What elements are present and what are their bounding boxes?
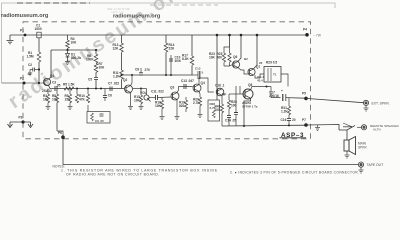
jack arrow right (28, 122, 33, 128)
diode D1 (67, 50, 69, 53)
svg-text:C16: C16 (281, 118, 287, 122)
svg-text:2. ● INDICATES 3 PIN OF 5-PRON: 2. ● INDICATES 3 PIN OF 5-PRONGED CIRCUI… (230, 171, 359, 175)
Q4 emitter resistor R20 (199, 91, 200, 97)
Q7 collector (254, 35, 258, 69)
svg-text:10K: 10K (99, 66, 106, 70)
junction dots wire y88.5 (76, 88, 78, 90)
svg-text:P3: P3 (19, 116, 23, 120)
svg-text:22K: 22K (169, 47, 176, 51)
capacitor C16b (288, 115, 290, 118)
capacitor C12 (192, 74, 198, 76)
ground tape out (359, 167, 364, 173)
Q1 emitter wire y88.5 (49, 86, 125, 89)
svg-text:C11 .022: C11 .022 (151, 90, 164, 94)
svg-text:270: 270 (145, 68, 151, 72)
svg-text:2SA12: 2SA12 (42, 89, 52, 93)
capacitor C2 (38, 68, 40, 70)
svg-text:+: + (281, 89, 283, 93)
capacitor C7 (109, 87, 111, 92)
svg-text:43.4: 43.4 (257, 79, 263, 83)
svg-text:TAPE OUT: TAPE OUT (367, 163, 384, 167)
svg-text:C8: C8 (135, 68, 139, 72)
wire to main speaker (346, 130, 348, 140)
Q8 emitter wire to C10 (251, 87, 271, 90)
svg-text:radiomuseum.org: radiomuseum.org (113, 14, 161, 20)
svg-text:Q3: Q3 (170, 86, 174, 90)
connector EXT SPKR (363, 100, 368, 105)
Q2 collector (131, 75, 133, 86)
node P3 / jacks (21, 120, 24, 123)
svg-text:OF RADIO AND ARE NOT ON CIRCUI: OF RADIO AND ARE NOT ON CIRCUIT BOARD. (66, 173, 160, 177)
svg-text:.02: .02 (27, 72, 32, 76)
svg-text:560: 560 (217, 56, 223, 60)
ground speaker (345, 151, 350, 158)
wire column x39 (38, 38, 40, 52)
resistor R31 column x285 (285, 97, 287, 99)
svg-text:C6: C6 (108, 94, 112, 98)
chassis ground outside border (315, 125, 320, 131)
transistor Q4 (193, 84, 201, 92)
resistor R6 column x96 (95, 49, 97, 51)
Q8 base wire (240, 93, 245, 95)
connector REMOTE SPEAKER (361, 125, 366, 130)
capacitor C13 (183, 84, 185, 89)
svg-text:SPKR: SPKR (358, 146, 367, 150)
top rail (10, 34, 307, 36)
node P2 / input wire (2, 82, 45, 84)
svg-text:10K: 10K (134, 99, 141, 103)
svg-text:C2: C2 (28, 63, 32, 67)
wire remote speaker (306, 125, 339, 131)
svg-text:1.5M: 1.5M (27, 55, 34, 59)
feedback network box (208, 100, 220, 121)
wire y50 (51, 49, 96, 51)
ground ext spkr (364, 106, 369, 112)
svg-text:8.2K: 8.2K (182, 57, 189, 61)
capacitor C5 (94, 77, 98, 79)
svg-text:R5 1.5K: R5 1.5K (63, 83, 75, 87)
resistor R12 (87, 89, 89, 95)
transistor Q5 (216, 88, 224, 96)
svg-text:NF: NF (222, 93, 226, 97)
transistor Q2 (125, 85, 133, 93)
svg-text:820: 820 (179, 104, 185, 108)
capacitor C10 (170, 74, 172, 76)
resistor R4 (67, 35, 69, 40)
svg-text:10K: 10K (209, 56, 216, 60)
Q5 emitter resistor R21 (221, 95, 223, 104)
bottom rail output (222, 124, 306, 127)
svg-text:Q2: Q2 (123, 78, 127, 82)
node P1 (24, 34, 27, 37)
jack contacts (339, 129, 347, 131)
svg-text:ALTN: ALTN (373, 128, 381, 132)
svg-text:Q6: Q6 (233, 55, 237, 59)
wire Q2 to pot (133, 88, 141, 90)
wire to ext spkr (306, 98, 364, 102)
transistor Q8 (output) (243, 89, 253, 99)
transistor Q6 (232, 61, 239, 68)
ground C2 (28, 70, 32, 76)
capacitor C6 (104, 89, 106, 96)
capacitor C14 (227, 115, 231, 117)
svg-text:Q4: Q4 (201, 81, 205, 85)
svg-text:200/16: 200/16 (269, 94, 279, 98)
svg-text:C13 .047: C13 .047 (181, 79, 194, 83)
svg-text:12K: 12K (113, 47, 120, 51)
wire P6 down (62, 137, 64, 164)
svg-text:47K: 47K (79, 98, 86, 102)
resistor R3 (47, 89, 49, 95)
svg-text:C16 .1: C16 .1 (215, 84, 225, 88)
frame dark dashes (17, 2, 90, 4)
svg-text:R29 0.5: R29 0.5 (266, 61, 277, 65)
Q3 emitter ground (176, 99, 178, 116)
node P4 (305, 33, 309, 37)
svg-text:C12: C12 (195, 67, 201, 71)
resistor R10 (76, 89, 78, 95)
svg-text:30/6: 30/6 (175, 59, 181, 63)
svg-text:500-2b: 500-2b (71, 56, 81, 60)
speaker MAIN SPKR (344, 140, 349, 151)
svg-text:26: 26 (259, 61, 263, 65)
resistors R23 R25 (229, 35, 231, 47)
capacitor C15 electrolytic (235, 86, 237, 112)
node P7 (304, 123, 308, 127)
svg-text:radiomuseum.org: radiomuseum.org (1, 13, 49, 19)
svg-text:~ 7W: ~ 7W (313, 34, 322, 38)
transistor Q7 (248, 68, 255, 75)
Q6 emitter / coupling (238, 68, 248, 74)
svg-text:P5: P5 (302, 92, 306, 96)
resistor R19 (185, 97, 187, 100)
volume pot P (144, 95, 149, 100)
svg-text:P7: P7 (302, 118, 306, 122)
ground (input) (7, 35, 14, 44)
capacitor C11 (149, 97, 155, 99)
resistor R26 (229, 93, 240, 95)
resistor R9 (69, 89, 71, 95)
capacitor C8 (139, 72, 143, 74)
svg-text:P1: P1 (20, 29, 24, 33)
resistor R15 (140, 89, 142, 96)
svg-text:GEPR. 9.62: GEPR. 9.62 (111, 11, 124, 14)
svg-text:C7 .022: C7 .022 (108, 82, 119, 86)
svg-text:P2: P2 (20, 77, 24, 81)
svg-text:VOL: VOL (140, 91, 147, 95)
Q4 collector wire (199, 78, 214, 92)
driver transformer T1 box (264, 67, 281, 83)
svg-text:EXT. SPKR.: EXT. SPKR. (372, 101, 390, 105)
svg-text:P6: P6 (58, 131, 62, 135)
Q8 collector to rail (244, 98, 251, 126)
svg-text:C14 .05: C14 .05 (225, 119, 236, 123)
jack arrow left (8, 122, 13, 128)
transistor Q1 (43, 78, 50, 85)
svg-text:100K: 100K (86, 58, 94, 62)
resistor R18 (161, 97, 163, 100)
svg-text:10K: 10K (71, 41, 78, 45)
Q3 collector wire (177, 87, 193, 93)
svg-text:T1: T1 (273, 73, 277, 77)
tape out wire (63, 164, 359, 166)
Q2 emitter / ground (130, 92, 132, 106)
node P6 (61, 135, 65, 139)
svg-text:B2: B2 (244, 57, 248, 61)
svg-text:1000: 1000 (35, 27, 42, 31)
svg-text:100: 100 (215, 108, 221, 112)
svg-text:C5: C5 (88, 78, 92, 82)
transistor Q3 (171, 92, 179, 100)
wire y75 (122, 74, 193, 76)
resistor R14 (165, 35, 167, 43)
svg-text:2.7K: 2.7K (193, 101, 200, 105)
svg-text:P4: P4 (303, 28, 307, 32)
feedback box R10/C9 (87, 112, 110, 124)
node P5 (304, 97, 308, 101)
connector TAPE OUT (358, 162, 363, 167)
svg-text:10K: 10K (155, 104, 162, 108)
dashed board outline (23, 22, 311, 139)
Q6 collector wire (238, 35, 241, 61)
T1 wires (255, 74, 264, 78)
resistor R13 col x121.5 (121, 35, 123, 43)
ground D1 (65, 62, 70, 65)
svg-text:C9 .05: C9 .05 (95, 119, 104, 123)
svg-text:1.2K: 1.2K (281, 110, 288, 114)
scan frame top (2, 3, 336, 83)
svg-text:20: 20 (292, 118, 296, 122)
resistor R8 (56, 91, 58, 94)
Q1 collector wire (49, 50, 51, 79)
